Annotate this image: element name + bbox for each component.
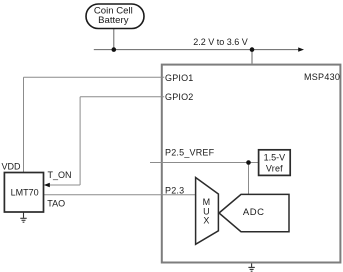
svg-text:TAO: TAO	[47, 199, 65, 209]
svg-text:Battery: Battery	[98, 15, 129, 26]
svg-text:MSP430: MSP430	[304, 72, 340, 82]
svg-text:ADC: ADC	[243, 207, 265, 218]
svg-text:VDD: VDD	[2, 161, 22, 171]
svg-text:GPIO2: GPIO2	[165, 92, 194, 102]
svg-text:P2.5_VREF: P2.5_VREF	[165, 148, 215, 158]
svg-text:LMT70: LMT70	[11, 187, 39, 197]
svg-text:Vref: Vref	[266, 163, 283, 173]
svg-text:GPIO1: GPIO1	[165, 73, 194, 83]
svg-text:P2.3: P2.3	[165, 186, 184, 196]
svg-text:X: X	[203, 216, 209, 226]
svg-text:1.5-V: 1.5-V	[264, 152, 286, 162]
svg-text:T_ON: T_ON	[48, 170, 72, 180]
svg-text:2.2 V to 3.6 V: 2.2 V to 3.6 V	[193, 37, 248, 47]
